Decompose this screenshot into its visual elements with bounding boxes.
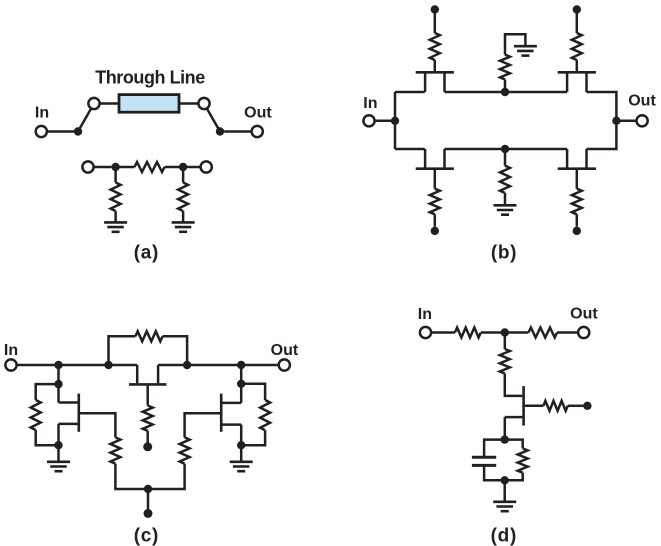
wire contact to through line (a): [100, 102, 119, 105]
input terminal In (d): [420, 327, 431, 338]
resistor gate Q3 (b): [430, 189, 440, 215]
through line transmission element: [119, 95, 179, 113]
wire node to shunt resistor top (b): [504, 80, 507, 93]
wire node to series resistor out (d): [505, 331, 529, 334]
attenuator right terminal (a): [201, 161, 212, 172]
node F ground node (d): [501, 476, 509, 484]
switch SW1 arm left (a): [78, 108, 91, 131]
wire node to shunt resistor bottom (b): [504, 149, 507, 166]
switch pole node left (a): [74, 127, 82, 135]
wire switch pole to Out (a): [224, 130, 251, 133]
svg-text:(a): (a): [134, 242, 159, 263]
label Through Line: [95, 68, 205, 88]
wire resistor to control terminal Q3 (b): [434, 214, 437, 226]
svg-text:Out: Out: [570, 306, 598, 323]
resistor gate Q2 (b): [572, 33, 582, 60]
resistor parallel right FET (c): [260, 400, 270, 430]
node right of pi network: [179, 163, 187, 171]
caption (a): [134, 242, 159, 263]
caption (c): [134, 525, 159, 546]
wire resistor to control terminal Q2 (b): [576, 14, 579, 34]
node A3 ground node left (c): [54, 441, 62, 449]
caption (b): [491, 242, 517, 263]
output terminal Out (d): [578, 327, 589, 338]
wire node A branch down (c): [57, 365, 60, 403]
ground right (c): [230, 462, 253, 471]
svg-text:(c): (c): [134, 525, 159, 546]
input terminal In (c): [5, 359, 16, 370]
wire series resistor to Out (d): [557, 331, 578, 334]
output node (b): [612, 117, 620, 125]
label In (b): [363, 95, 377, 112]
svg-text:In: In: [418, 306, 432, 323]
label In (c): [4, 342, 18, 359]
capacitor bypass (d): [472, 457, 496, 465]
node C bridge right (c): [183, 361, 191, 369]
wire gate resistor to bottom rail right (c): [148, 464, 185, 489]
input terminal In (b): [363, 115, 374, 126]
wire top rail right segment (b): [587, 92, 617, 121]
wire node D3 to ground (c): [240, 445, 243, 462]
wire node E to parallel resistor (d): [505, 440, 523, 449]
wire bottom rail left segment (b): [395, 148, 425, 151]
wire D2 to parallel resistor right (c): [241, 384, 265, 400]
resistor series pi network: [135, 162, 165, 172]
wire shunt resistor to ground right (a): [182, 211, 185, 222]
wire gate Q5 (c): [146, 386, 149, 406]
wire In to switch pole (a): [47, 130, 74, 133]
node E source (d): [501, 435, 509, 443]
wire node to terminal (a): [183, 166, 201, 169]
transistor Q4 bottom-right (b): [558, 149, 596, 169]
transistor Q7 shunt right (c): [221, 394, 241, 432]
node left of pi network: [111, 163, 119, 171]
wire bottom rail mid-right segment (b): [505, 148, 567, 151]
transistor Q2 top-right (b): [558, 72, 596, 92]
wire node F to ground (d): [503, 480, 506, 502]
label Out (b): [628, 93, 656, 110]
node A2 shunt split left (c): [54, 380, 62, 388]
switch SW2 arm right (a): [207, 108, 220, 131]
label In (d): [418, 306, 432, 323]
transistor Q8 (d): [505, 386, 524, 426]
resistor gate Q6 (c): [110, 437, 120, 463]
input terminal In (a): [36, 126, 47, 137]
wire parallel resistor to node F (d): [505, 473, 523, 481]
wire Q7 source down to node D3 (c): [240, 425, 243, 446]
wire through line to contact (a): [179, 102, 198, 105]
control terminal node Q1 (b): [431, 5, 439, 13]
wire series resistor to node (d): [481, 331, 505, 334]
transistor Q3 bottom-left (b): [416, 149, 454, 169]
wire node to series resistor (a): [116, 166, 135, 169]
wire parallel resistor to node D3 (c): [241, 430, 265, 445]
output terminal Out (a): [252, 126, 263, 137]
node center (d): [501, 328, 509, 336]
wire A2 to parallel resistor left (c): [36, 384, 59, 400]
wire main line left segment (c): [17, 364, 138, 367]
switch SW2 throw contact right (a): [198, 98, 209, 109]
wire output node to Out terminal (b): [616, 120, 636, 123]
svg-text:(b): (b): [491, 242, 517, 263]
node bottom center (b): [501, 145, 509, 153]
attenuator left terminal (a): [82, 161, 93, 172]
wire node A3 to ground (c): [57, 445, 60, 462]
wire resistor to control terminal Q4 (b): [576, 214, 579, 226]
resistor gate Q8 (d): [543, 401, 567, 411]
ground left (c): [47, 462, 70, 471]
wire input rail vertical (b): [394, 92, 397, 149]
control terminal node Q3 (b): [431, 227, 439, 235]
wire shunt resistor to ground bottom (b): [504, 193, 507, 205]
ground top center (b): [514, 46, 537, 55]
node top center (b): [501, 88, 509, 96]
wire gate Q3 (b): [434, 170, 437, 189]
wire main line right segment (c): [158, 364, 279, 367]
resistor gate Q1 (b): [430, 33, 440, 60]
wire bridge right riser (c): [163, 336, 188, 365]
ground (d): [493, 502, 516, 511]
wire shunt resistor to ground left (a): [114, 211, 117, 222]
resistor shunt top (b): [500, 55, 510, 80]
label Out (c): [271, 342, 299, 359]
resistor series output (d): [529, 328, 558, 338]
wire bottom control stub (c): [147, 489, 150, 509]
svg-text:(d): (d): [491, 525, 517, 546]
wire parallel resistor to node A3 (c): [36, 430, 59, 445]
wire In terminal to input node (b): [375, 120, 391, 123]
node D2 shunt split right (c): [237, 380, 245, 388]
svg-text:Through Line: Through Line: [95, 68, 205, 88]
svg-text:In: In: [35, 105, 49, 122]
wire shunt resistor to ground top (b): [505, 34, 525, 54]
output terminal Out (b): [637, 115, 648, 126]
resistor series input (d): [455, 328, 481, 338]
wire capacitor to node F (d): [484, 465, 505, 480]
wire bottom rail right segment (b): [587, 121, 617, 149]
wire node to shunt resistor left (a): [114, 171, 117, 183]
transistor Q6 shunt left (c): [59, 394, 79, 432]
wire gate Q8 (d): [525, 405, 544, 408]
resistor shunt drain (d): [500, 349, 510, 374]
control terminal node Q2 (b): [573, 5, 581, 13]
wire gate resistor to control node (d): [568, 405, 584, 408]
resistor gate Q7 (c): [180, 437, 190, 463]
switch SW1 throw contact left (a): [88, 98, 99, 109]
wire top rail mid-right segment (b): [505, 91, 567, 94]
resistor source parallel (d): [518, 448, 528, 472]
node bottom rail center (c): [144, 485, 152, 493]
input node (b): [391, 117, 399, 125]
control terminal node Q8 (d): [583, 402, 591, 410]
label Out (a): [244, 105, 272, 122]
wire gate Q1 (b): [434, 60, 437, 71]
ground bottom center (b): [494, 205, 517, 214]
wire resistor to control terminal Q1 (b): [434, 14, 437, 34]
wire gate Q4 (b): [576, 170, 579, 189]
output terminal Out (c): [279, 359, 290, 370]
node B bridge left (c): [104, 361, 112, 369]
wire gate Q7 (c): [185, 413, 220, 437]
control terminal node Q5 (c): [143, 442, 152, 451]
wire node to shunt resistor right (a): [182, 171, 185, 183]
wire resistor to Q8 drain (d): [505, 374, 523, 396]
wire node D branch down (c): [240, 365, 243, 403]
label Out (d): [570, 306, 598, 323]
wire top rail mid-left segment (b): [445, 91, 506, 94]
wire node down to resistor (d): [504, 333, 507, 350]
caption (d): [491, 525, 517, 546]
resistor shunt right pi network: [178, 183, 188, 212]
svg-text:In: In: [4, 342, 18, 359]
control terminal node bottom (c): [144, 509, 153, 518]
wire top rail left segment (b): [395, 91, 425, 94]
resistor shunt left pi network: [111, 183, 121, 212]
label In (a): [35, 105, 49, 122]
wire bottom rail mid-left segment (b): [445, 148, 506, 151]
transistor Q1 top-left (b): [416, 72, 454, 92]
resistor parallel left FET (c): [31, 400, 41, 430]
ground left (a): [104, 222, 127, 231]
resistor shunt bottom (b): [500, 166, 510, 193]
wire gate Q2 (b): [576, 60, 579, 71]
wire bridge left riser (c): [109, 336, 136, 365]
resistor bridge (c): [135, 331, 162, 341]
resistor gate Q4 (b): [572, 189, 582, 215]
svg-text:In: In: [363, 95, 377, 112]
node D3 ground node right (c): [237, 441, 245, 449]
wire gate Q6 (c): [80, 413, 115, 437]
wire Q8 source down to node E (d): [504, 417, 507, 440]
wire gate resistor to bottom rail left (c): [115, 464, 148, 489]
wire resistor to control stub Q5 (c): [146, 431, 149, 443]
svg-text:Out: Out: [244, 105, 272, 122]
transistor Q5 series center (c): [129, 365, 166, 384]
node D output branch (c): [237, 361, 245, 369]
svg-text:Out: Out: [628, 93, 656, 110]
wire series resistor to node (a): [165, 166, 184, 169]
wire terminal to node (a): [94, 166, 112, 169]
wire In to series resistor (d): [431, 331, 455, 334]
node A input branch (c): [54, 361, 62, 369]
wire node E to capacitor (d): [484, 440, 505, 458]
svg-text:Out: Out: [271, 342, 299, 359]
resistor gate Q5 (c): [143, 406, 153, 431]
control terminal node Q4 (b): [573, 227, 581, 235]
switch pole node right (a): [216, 127, 224, 135]
ground right (a): [172, 222, 195, 231]
wire Q6 source down to node A3 (c): [57, 424, 60, 445]
